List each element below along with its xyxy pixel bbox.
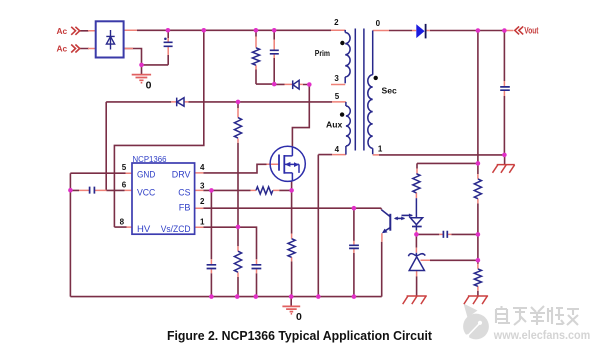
- svg-text:Prim: Prim: [315, 48, 330, 58]
- svg-text:CS: CS: [178, 188, 190, 198]
- svg-text:HV: HV: [137, 224, 151, 234]
- svg-text:Vs/ZCD: Vs/ZCD: [161, 224, 191, 234]
- svg-text:1: 1: [200, 218, 205, 227]
- svg-text:0: 0: [146, 80, 152, 92]
- svg-text:0: 0: [296, 311, 302, 323]
- svg-text:Ac: Ac: [57, 26, 68, 36]
- svg-text:Ac: Ac: [57, 44, 68, 54]
- svg-text:3: 3: [200, 181, 205, 190]
- svg-text:8: 8: [120, 217, 125, 226]
- svg-text:4: 4: [200, 163, 205, 172]
- svg-text:Sec: Sec: [382, 85, 398, 95]
- svg-text:5: 5: [122, 163, 127, 172]
- svg-text:5: 5: [335, 92, 340, 101]
- svg-text:Vout: Vout: [524, 26, 538, 36]
- svg-text:DRV: DRV: [172, 169, 192, 179]
- svg-text:NCP1366: NCP1366: [133, 155, 167, 164]
- svg-text:6: 6: [122, 180, 127, 189]
- svg-text:3: 3: [334, 74, 339, 83]
- svg-text:www.elecfans.com: www.elecfans.com: [493, 328, 590, 342]
- svg-text:Aux: Aux: [326, 119, 342, 129]
- svg-text:1: 1: [378, 145, 383, 154]
- svg-text:4: 4: [335, 145, 340, 154]
- svg-text:0: 0: [376, 19, 381, 28]
- svg-text:VCC: VCC: [137, 188, 156, 198]
- svg-text:Figure 2. NCP1366 Typical Appl: Figure 2. NCP1366 Typical Application Ci…: [167, 328, 433, 343]
- svg-text:2: 2: [200, 197, 205, 206]
- svg-text:2: 2: [334, 18, 339, 27]
- svg-text:FB: FB: [179, 203, 191, 213]
- svg-text:GND: GND: [137, 169, 156, 179]
